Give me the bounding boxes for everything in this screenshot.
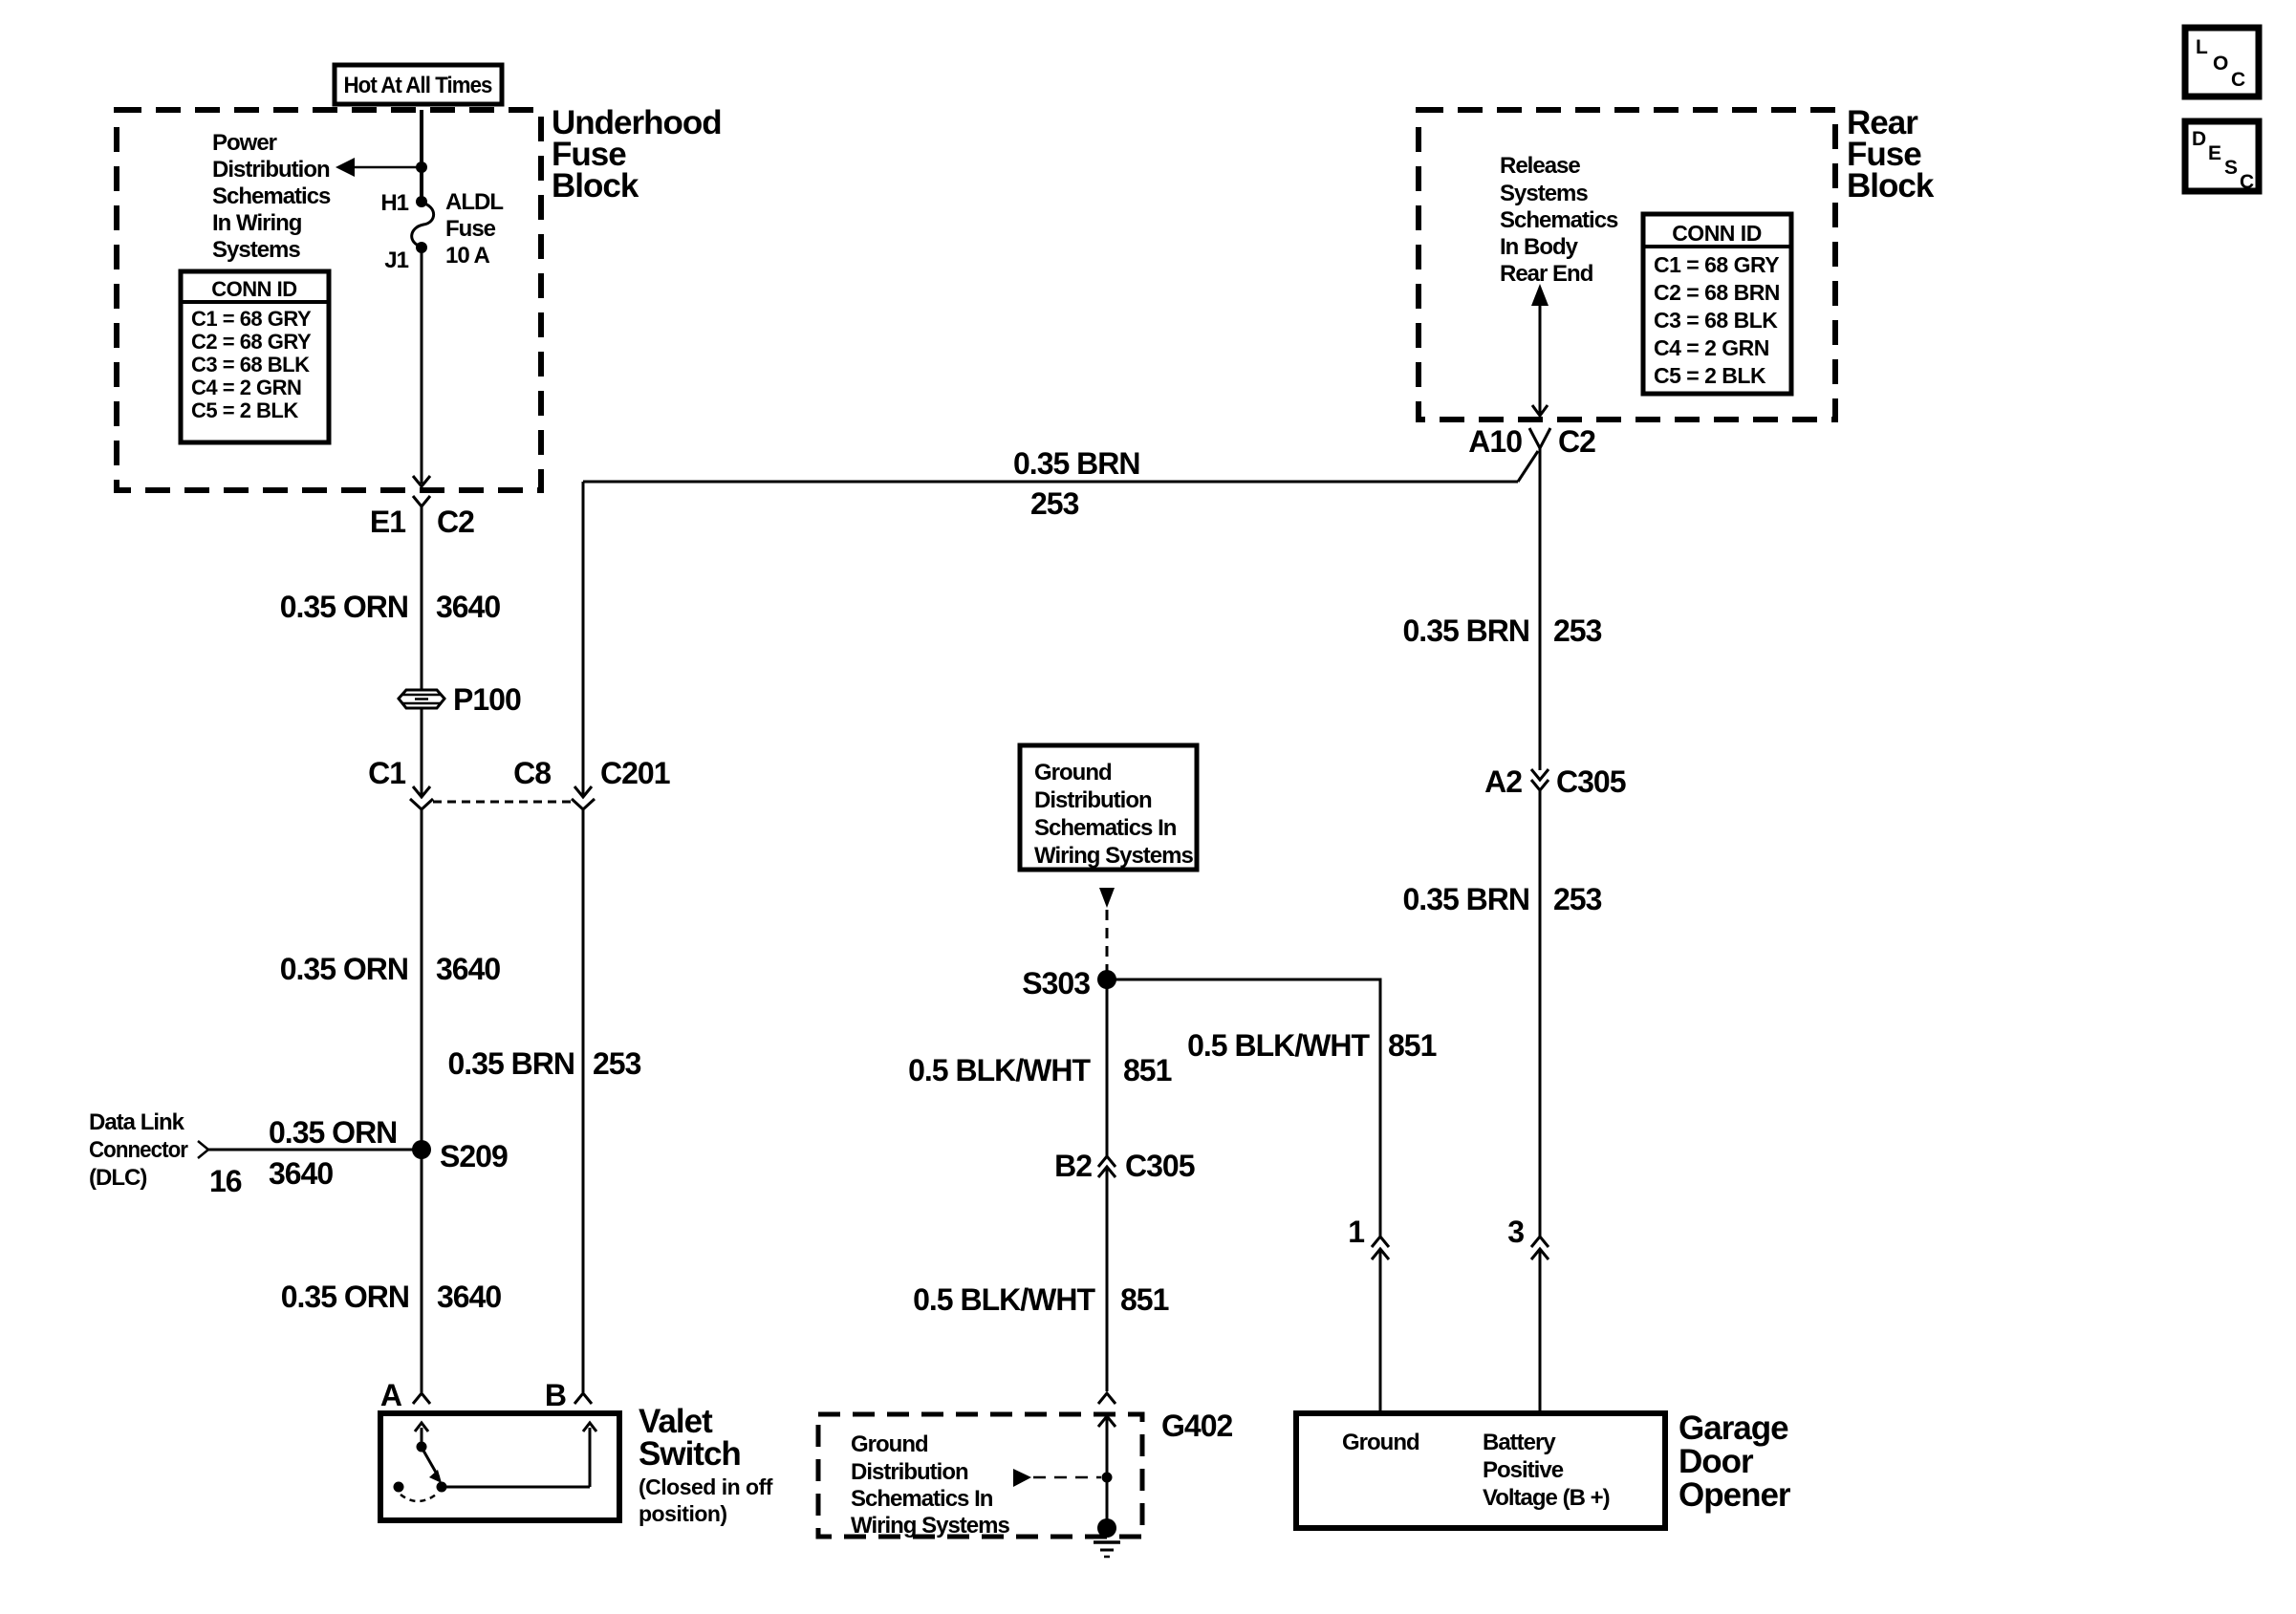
svg-text:C: C (2231, 69, 2245, 91)
svg-text:3: 3 (1507, 1215, 1524, 1249)
Release Systems Schematics note (1500, 153, 1618, 287)
svg-text:C2 = 68 GRY: C2 = 68 GRY (191, 330, 312, 354)
wire label 0.35 BRN 253 horizontal (1013, 446, 1140, 521)
DLC wire labels 0.35 ORN 3640 16 (209, 1115, 397, 1198)
LOC reference box (2185, 28, 2259, 97)
svg-text:C8: C8 (513, 756, 551, 790)
svg-text:L: L (2196, 36, 2208, 58)
wire S303 down (1106, 979, 1109, 1157)
CONN ID table (rear) (1643, 214, 1791, 394)
svg-text:C: C (2240, 171, 2254, 193)
svg-text:C2: C2 (1558, 424, 1595, 459)
svg-text:0.35 BRN: 0.35 BRN (1403, 882, 1530, 916)
wire J1 down to fuse block edge (421, 247, 423, 484)
svg-text:Garage: Garage (1679, 1410, 1788, 1447)
wire A2 down to garage door opener pin 3 (1539, 790, 1542, 1237)
wire E1 to P100 (421, 506, 423, 690)
wire P100 to C201 (421, 708, 423, 797)
ground lead-in chevrons (1098, 1393, 1116, 1404)
svg-text:0.35 ORN: 0.35 ORN (280, 952, 408, 986)
svg-text:Schematics In: Schematics In (851, 1486, 993, 1512)
DLC pin 16 connector chevron (198, 1141, 208, 1158)
Hot At All Times box (335, 65, 502, 104)
wire label 0.5 BLK/WHT 851 left (908, 1053, 1171, 1087)
svg-text:Systems: Systems (212, 237, 300, 263)
wire label 0.35 ORN 3640 (280, 590, 501, 624)
svg-text:B2: B2 (1054, 1149, 1092, 1183)
svg-text:C5 = 2 BLK: C5 = 2 BLK (1654, 363, 1766, 388)
connector A2/C305 (1484, 764, 1626, 799)
svg-text:In Body: In Body (1500, 234, 1579, 260)
svg-text:Ground: Ground (1342, 1430, 1419, 1455)
ground symbol G402 (1094, 1518, 1120, 1557)
double arrow to release systems (1531, 284, 1549, 416)
wire label 0.35 BRN 253 (1403, 613, 1602, 648)
Rear Fuse Block dashed box (1419, 110, 1835, 420)
Valet Switch label (639, 1403, 773, 1526)
svg-text:C4 = 2 GRN: C4 = 2 GRN (1654, 335, 1769, 360)
svg-text:3640: 3640 (269, 1156, 333, 1191)
svg-text:Door: Door (1679, 1443, 1754, 1480)
svg-text:0.35 BRN: 0.35 BRN (1013, 446, 1140, 481)
wire from DLC to S209 (208, 1149, 422, 1151)
svg-text:Connector: Connector (89, 1137, 188, 1163)
connector E1/C2 at fuse block exit (370, 476, 474, 539)
Garage Door Opener label (1679, 1410, 1791, 1514)
wire C1 down to S209 (421, 809, 423, 1392)
svg-text:C1 = 68 GRY: C1 = 68 GRY (191, 307, 312, 331)
svg-text:Schematics: Schematics (212, 183, 331, 209)
svg-text:E1: E1 (370, 505, 405, 539)
valet switch contacts (394, 1423, 597, 1501)
wire into ground G402 (1106, 1416, 1109, 1528)
svg-text:851: 851 (1123, 1053, 1172, 1087)
svg-text:CONN ID: CONN ID (1672, 221, 1762, 246)
svg-text:B: B (545, 1378, 566, 1412)
svg-text:S: S (2224, 157, 2238, 179)
wire label 0.35 ORN 3640 (280, 952, 501, 986)
svg-text:C2: C2 (437, 505, 474, 539)
splice S209 (412, 1139, 508, 1173)
svg-text:Fuse: Fuse (445, 216, 496, 242)
svg-text:Distribution: Distribution (851, 1459, 968, 1485)
svg-text:0.5 BLK/WHT: 0.5 BLK/WHT (908, 1053, 1091, 1087)
svg-text:Systems: Systems (1500, 181, 1588, 206)
Power Distribution Schematics note (212, 130, 331, 263)
svg-text:S303: S303 (1022, 966, 1090, 1001)
svg-text:0.35 ORN: 0.35 ORN (269, 1115, 397, 1150)
svg-text:ALDL: ALDL (445, 189, 503, 215)
svg-text:851: 851 (1120, 1282, 1169, 1317)
svg-text:Data Link: Data Link (89, 1109, 185, 1135)
wire C8 down to valet switch B (582, 809, 585, 1392)
horizontal wire 0.35 BRN from C201 branch to rear fuse block (583, 451, 1538, 482)
svg-text:0.5 BLK/WHT: 0.5 BLK/WHT (1187, 1028, 1370, 1063)
svg-text:A2: A2 (1484, 764, 1522, 799)
svg-text:Ground: Ground (1034, 760, 1112, 785)
svg-text:253: 253 (1030, 486, 1079, 521)
valet switch box (380, 1413, 619, 1520)
wire pin3 to garage door opener (1539, 1249, 1542, 1413)
svg-text:Wiring Systems: Wiring Systems (851, 1513, 1009, 1539)
svg-text:3640: 3640 (436, 952, 500, 986)
svg-text:Schematics: Schematics (1500, 207, 1618, 233)
svg-text:C1 = 68 GRY: C1 = 68 GRY (1654, 252, 1779, 277)
svg-text:Rear End: Rear End (1500, 261, 1593, 287)
wire label 0.35 BRN 253 lower (1403, 882, 1602, 916)
Ground Distribution reference box (1020, 745, 1197, 870)
connector C1 of C201 (368, 756, 433, 809)
wire pin1 to garage door opener (1379, 1249, 1382, 1413)
svg-text:In Wiring: In Wiring (212, 210, 302, 236)
connector A10/C2 (1468, 424, 1595, 459)
Garage Door Opener box (1296, 1413, 1665, 1528)
wire feed from Hot At All Times into fuse block (420, 110, 423, 201)
svg-text:Release: Release (1500, 153, 1580, 179)
valet switch pin B (545, 1378, 592, 1412)
wire B2 down to G402 (1106, 1168, 1109, 1391)
node junction to power distribution arrow (416, 161, 427, 173)
Underhood Fuse Block label (552, 104, 722, 204)
right branch wire corner to C8 (582, 482, 585, 797)
svg-text:C201: C201 (600, 756, 670, 790)
svg-text:J1: J1 (384, 247, 408, 273)
splice S303 (1022, 966, 1116, 1001)
svg-text:CONN ID: CONN ID (211, 277, 296, 301)
G402 dashed box (818, 1409, 1232, 1537)
svg-text:O: O (2213, 53, 2228, 75)
svg-text:C5 = 2 BLK: C5 = 2 BLK (191, 398, 298, 422)
wire label 0.5 BLK/WHT 851 right branch (1187, 1028, 1436, 1063)
svg-text:Opener: Opener (1679, 1476, 1791, 1514)
wire label 0.5 BLK/WHT 851 lower (913, 1282, 1168, 1317)
svg-text:C4 = 2 GRN: C4 = 2 GRN (191, 376, 301, 399)
svg-text:253: 253 (1553, 613, 1602, 648)
svg-text:position): position) (639, 1501, 727, 1526)
svg-text:A10: A10 (1468, 424, 1522, 459)
svg-text:Battery: Battery (1483, 1430, 1556, 1455)
svg-text:0.35 BRN: 0.35 BRN (448, 1046, 575, 1081)
connector C8 / C201 (513, 756, 670, 809)
svg-text:16: 16 (209, 1164, 242, 1198)
dashed reference arrow inside G402 (1013, 1469, 1113, 1487)
svg-text:G402: G402 (1161, 1409, 1232, 1443)
grommet P100 (399, 682, 521, 717)
svg-text:Voltage (B +): Voltage (B +) (1483, 1485, 1610, 1511)
svg-text:Distribution: Distribution (212, 157, 330, 183)
valet switch pin A (380, 1378, 430, 1412)
svg-text:851: 851 (1388, 1028, 1437, 1063)
svg-text:Block: Block (1847, 167, 1935, 204)
DESC reference box (2185, 121, 2259, 193)
wire A10 down to A2 (1539, 448, 1542, 770)
svg-text:0.35 BRN: 0.35 BRN (1403, 613, 1530, 648)
Underhood Fuse Block dashed box (117, 110, 541, 490)
svg-text:C3 = 68 BLK: C3 = 68 BLK (1654, 308, 1778, 333)
svg-text:Positive: Positive (1483, 1457, 1564, 1483)
svg-text:Switch: Switch (639, 1435, 741, 1473)
dashed connector line C201 (433, 801, 573, 804)
fuse ALDL 10A (H1-J1) (380, 189, 503, 273)
svg-text:0.35 ORN: 0.35 ORN (281, 1280, 409, 1314)
svg-text:253: 253 (1553, 882, 1602, 916)
dashed wire to S303 (1106, 910, 1109, 971)
wire label 0.35 ORN 3640 lower (281, 1280, 502, 1314)
in-line connector pin 3 (1507, 1215, 1549, 1259)
svg-text:C305: C305 (1125, 1149, 1195, 1183)
svg-text:D: D (2192, 128, 2206, 150)
wire arrow to power distribution schematics (336, 158, 422, 177)
svg-text:Power: Power (212, 130, 277, 156)
svg-text:Block: Block (552, 167, 639, 204)
CONN ID table (underhood) (181, 271, 329, 442)
svg-text:10 A: 10 A (445, 243, 489, 269)
svg-text:253: 253 (593, 1046, 641, 1081)
in-line connector pin 1 (1348, 1215, 1389, 1259)
Rear Fuse Block label (1847, 104, 1935, 204)
svg-text:0.35 ORN: 0.35 ORN (280, 590, 408, 624)
svg-text:C3 = 68 BLK: C3 = 68 BLK (191, 353, 310, 377)
svg-text:H1: H1 (380, 190, 408, 216)
wire S303 branch right (1107, 979, 1380, 1237)
connector B2/C305 (1054, 1149, 1195, 1183)
svg-text:0.5 BLK/WHT: 0.5 BLK/WHT (913, 1282, 1095, 1317)
wire label 0.35 BRN 253 (448, 1046, 641, 1081)
svg-text:P100: P100 (453, 682, 521, 717)
svg-text:3640: 3640 (437, 1280, 501, 1314)
arrow from ground distribution box (1099, 888, 1115, 908)
svg-text:Ground: Ground (851, 1431, 928, 1457)
svg-text:C305: C305 (1556, 764, 1626, 799)
Data Link Connector label (89, 1109, 188, 1191)
svg-text:3640: 3640 (436, 590, 500, 624)
svg-text:C2 = 68 BRN: C2 = 68 BRN (1654, 280, 1780, 305)
Ground Distribution note in G402 (851, 1431, 1009, 1539)
svg-text:(Closed in off: (Closed in off (639, 1474, 773, 1499)
svg-text:(DLC): (DLC) (89, 1165, 146, 1191)
svg-text:Hot At All Times: Hot At All Times (344, 73, 493, 98)
svg-text:Distribution: Distribution (1034, 787, 1152, 813)
svg-text:Wiring Systems: Wiring Systems (1034, 843, 1193, 869)
svg-text:1: 1 (1348, 1215, 1364, 1249)
svg-text:Schematics In: Schematics In (1034, 815, 1177, 841)
svg-text:E: E (2208, 142, 2221, 164)
svg-text:A: A (380, 1378, 402, 1412)
svg-text:S209: S209 (440, 1139, 508, 1173)
svg-text:C1: C1 (368, 756, 405, 790)
